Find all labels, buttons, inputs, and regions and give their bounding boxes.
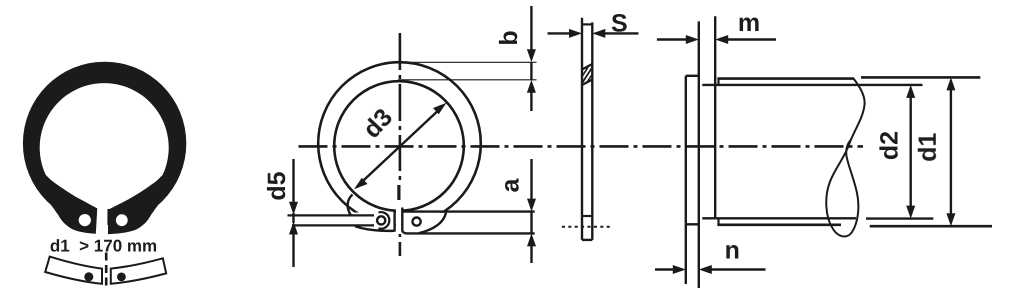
left lug slot top tangent / d5 extension [288, 214, 375, 216]
right lug shoulder bulge [108, 205, 158, 234]
vertical centerline of ring view [399, 33, 400, 256]
svg-text:d5: d5 [263, 171, 291, 200]
ring outline view: inner circle [334, 81, 464, 211]
white cover over lug zone right [404, 213, 445, 232]
dotted line through side view bottom [562, 226, 613, 228]
right lug hole [413, 218, 421, 226]
right lug gap edge [401, 208, 403, 232]
left lug gap edge [393, 210, 395, 231]
ring outline view: outer circle [318, 62, 481, 225]
svg-text:b: b [495, 30, 523, 45]
s dimension line with arrows [548, 29, 639, 38]
d1 bottom extension [870, 225, 992, 228]
d1 top extension [861, 76, 980, 79]
white cover over lug zone left [348, 213, 394, 230]
a dimension line with arrows [527, 159, 536, 263]
left lug hole [79, 214, 91, 226]
split line (dashed) below caption [105, 253, 108, 290]
side view: ring cross-section rectangle [582, 18, 592, 240]
inner opening (white) [40, 83, 169, 209]
shaft bottom edge [717, 224, 841, 227]
ring body disk [23, 62, 186, 225]
d3 diagonal arrow [354, 103, 447, 190]
b dimension line with arrows [527, 6, 536, 111]
d2 bottom extension [866, 217, 933, 219]
left lug shoulder bulge [51, 205, 101, 234]
b leader line lower [398, 79, 537, 81]
svg-text:d1 > 170 mm: d1 > 170 mm [50, 237, 157, 256]
left lug hole [377, 216, 385, 224]
svg-text:S: S [611, 10, 628, 38]
shaft chamfer edge top [717, 79, 719, 85]
white cover ring gap [396, 200, 401, 234]
groove diameter line bottom (d2) [702, 217, 856, 219]
right lug bottom edge / a extension [402, 231, 534, 234]
right lug curved edge [419, 213, 446, 234]
m dimension line with arrows [657, 35, 776, 44]
shaft view: ring in place (thin rectangle) [686, 21, 699, 288]
b leader line upper [397, 61, 537, 63]
svg-text:m: m [738, 9, 760, 37]
right lug top edge / a extension [402, 210, 534, 212]
side view crossbar (lug) [582, 215, 592, 217]
right arc segment dot [117, 273, 126, 282]
left arc segment outline [45, 257, 102, 284]
d5 dimension line with arrows [289, 159, 298, 267]
shaft break curve with loop [826, 79, 864, 237]
ring gap (white) [96, 201, 108, 238]
right arc segment outline [111, 258, 166, 284]
left lug slot bottom tangent / d5 extension [292, 224, 374, 226]
white cover slot band [288, 217, 388, 225]
left lug of ring view: corner fillet [348, 195, 353, 216]
d1 dimension line with arrows [946, 77, 955, 226]
shaft end face / m extension [714, 16, 716, 218]
svg-text:d2: d2 [876, 131, 904, 160]
left lug bottom edge [355, 226, 395, 231]
svg-text:d1: d1 [914, 133, 942, 162]
shaft chamfer edge bottom [717, 218, 719, 225]
svg-text:a: a [497, 177, 525, 192]
right lug hole [116, 214, 128, 226]
groove diameter line top (d2) [702, 84, 922, 86]
left lug slot round cap [379, 212, 390, 229]
svg-text:n: n [725, 237, 740, 265]
hatch section block [582, 64, 592, 85]
retaining ring front silhouette (left figure) [23, 62, 186, 238]
shaft top edge [717, 77, 854, 80]
n dimension line with arrows [655, 265, 766, 274]
horizontal centerline [299, 145, 864, 148]
left arc segment dot [84, 272, 93, 281]
d2 dimension line with arrows [906, 85, 915, 219]
